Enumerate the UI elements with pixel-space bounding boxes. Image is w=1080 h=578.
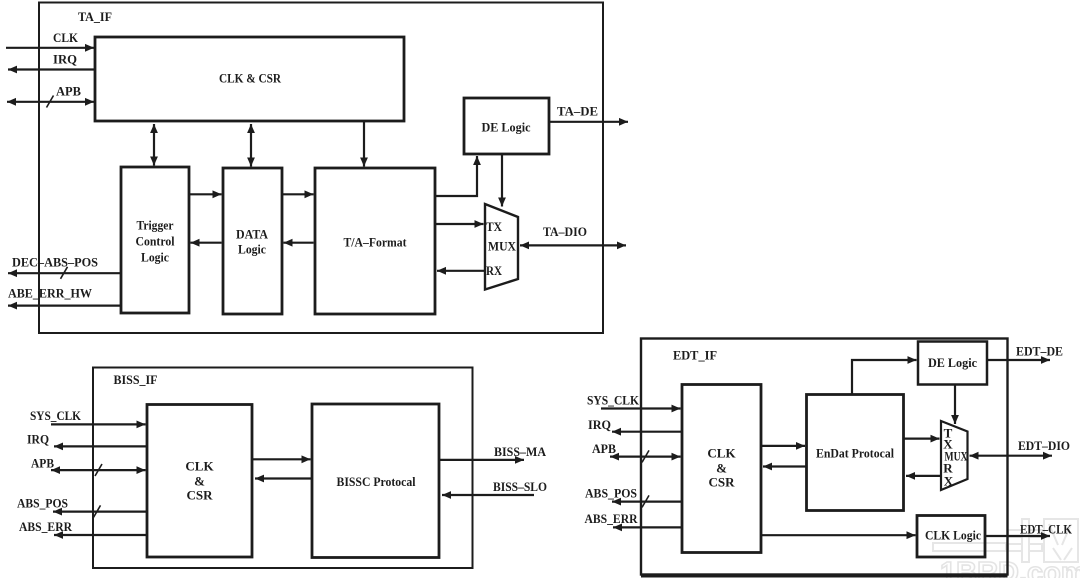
label DATA	[236, 226, 269, 241]
label MUX(EDT)	[945, 448, 968, 463]
label EDT-DE	[1016, 343, 1063, 358]
wire EnDat to CSR	[763, 465, 806, 467]
svg-text:EDT–CLK: EDT–CLK	[1020, 521, 1073, 536]
label IRQ	[53, 51, 77, 66]
wire APB bidir	[7, 101, 94, 103]
bus-width slash APB (TA)	[47, 96, 54, 108]
wire CSR-T/A vert	[363, 122, 365, 167]
wire IRQ out	[8, 68, 95, 70]
svg-text:X: X	[944, 473, 954, 488]
svg-text:BISS–SLO: BISS–SLO	[493, 479, 547, 494]
wire ABS_POS (EDT)	[612, 501, 682, 503]
svg-text:EDT–DIO: EDT–DIO	[1018, 438, 1070, 453]
wire CSR to BISSC	[253, 458, 311, 460]
label BISSC Protocal	[337, 474, 416, 489]
block DE Logic (TA)	[464, 98, 549, 154]
label T(mux)	[944, 425, 953, 440]
svg-text:ABS_ERR: ABS_ERR	[585, 511, 639, 526]
wire DATA to Trigger	[191, 242, 222, 244]
wire MUX to EnDat	[906, 475, 941, 477]
label CLK(BISS)	[185, 458, 214, 473]
label Logic	[141, 249, 169, 264]
svg-text:SYS_CLK: SYS_CLK	[587, 392, 640, 407]
label ABS_POS (EDT)	[585, 485, 637, 500]
label DEC-ABS-POS	[12, 254, 98, 269]
wire ABS_ERR (BISS)	[54, 534, 147, 536]
svg-text:CLK: CLK	[707, 445, 736, 460]
label X2(mux)	[944, 473, 954, 488]
svg-text:T/A–Format: T/A–Format	[344, 234, 408, 249]
mux TX/RX (EDT)	[941, 421, 968, 490]
label ABS_ERR (BISS)	[19, 519, 73, 534]
label ABE_ERR_HW	[8, 285, 92, 300]
label ABS_ERR (EDT)	[585, 511, 639, 526]
svg-text:CLK: CLK	[53, 30, 79, 45]
wire CLK in	[6, 47, 94, 49]
wire SYS_CLK (BISS)	[51, 423, 146, 425]
wire BISSC to CSR	[255, 477, 311, 479]
wire APB (EDT)	[610, 456, 681, 458]
label &(BISS)	[194, 473, 205, 488]
block CLK & CSR (BISS)	[147, 405, 252, 558]
svg-text:APB: APB	[31, 455, 54, 470]
label SYS_CLK (EDT)	[587, 392, 640, 407]
wire EDT-DIO bidir	[970, 455, 1053, 457]
svg-text:TX: TX	[486, 219, 503, 234]
bus-width slash APB (BISS)	[95, 464, 102, 476]
block DE Logic (EDT)	[918, 342, 987, 385]
label Control	[136, 233, 175, 248]
wire BISS-SLO in	[442, 494, 534, 496]
mux TX/RX (TA)	[485, 204, 518, 290]
label &(EDT)	[716, 460, 727, 475]
svg-text:Control: Control	[136, 233, 175, 248]
wire ABS_POS (BISS)	[53, 511, 147, 513]
wire T/A to DE Logic	[435, 156, 477, 196]
bus-width slash DEC-ABS-POS	[61, 267, 68, 279]
label Logic(DATA)	[238, 241, 266, 256]
wire IRQ (BISS)	[54, 445, 147, 447]
label BISS_IF	[114, 372, 158, 387]
wire EDT-CLK out	[986, 535, 1050, 537]
wire DEC-ABS-POS out	[8, 272, 121, 274]
label CLK(EDT)	[707, 445, 736, 460]
wire EnDat to MUX	[904, 438, 940, 440]
svg-text:BISS_IF: BISS_IF	[114, 372, 158, 387]
label SYS_CLK (BISS)	[30, 408, 82, 423]
svg-text:MUX: MUX	[488, 239, 517, 254]
svg-text:ABS_ERR: ABS_ERR	[19, 519, 73, 534]
svg-text:DE Logic: DE Logic	[928, 355, 977, 370]
block TA_IF outer	[39, 3, 603, 334]
wire ABE_ERR_HW out	[8, 305, 121, 307]
label EDT-DIO	[1018, 438, 1070, 453]
wire CSR to EnDat	[762, 445, 805, 447]
wire DE Logic to MUX	[501, 155, 503, 207]
wire BISS-MA out	[440, 459, 524, 461]
wire IRQ (EDT)	[612, 431, 682, 433]
svg-text:&: &	[716, 460, 727, 475]
wire CSR-Trigger vert	[153, 124, 155, 166]
svg-text:CSR: CSR	[186, 487, 213, 502]
block EDT_IF outer	[641, 339, 1008, 575]
svg-text:IRQ: IRQ	[27, 431, 49, 446]
svg-text:SYS_CLK: SYS_CLK	[30, 408, 82, 423]
svg-text:APB: APB	[56, 83, 81, 98]
wire CSR-DATA vert	[250, 124, 252, 167]
label TA-DE	[557, 104, 598, 119]
svg-text:TA–DIO: TA–DIO	[543, 224, 587, 239]
label MUX	[488, 239, 517, 254]
label CLK	[53, 30, 79, 45]
label EDT_IF	[673, 347, 717, 362]
svg-text:ABS_POS: ABS_POS	[17, 495, 68, 510]
label TA-DIO	[543, 224, 587, 239]
svg-text:EDT–DE: EDT–DE	[1016, 343, 1063, 358]
wire CSR to CLK Logic	[762, 534, 916, 536]
svg-text:Logic: Logic	[238, 241, 266, 256]
bus-width slash ABS_POS (BISS)	[94, 505, 101, 517]
EDT_IF outer bottom thick edge	[641, 574, 1008, 578]
bus-width slash APB (EDT)	[642, 450, 649, 462]
wire ABS_ERR (EDT)	[613, 526, 682, 528]
wire Trigger to DATA	[190, 193, 222, 195]
label Trigger	[137, 217, 174, 232]
svg-text:BISSC Protocal: BISSC Protocal	[337, 474, 416, 489]
block T/A-Format	[315, 168, 435, 314]
label APB (EDT)	[592, 441, 616, 456]
label BISS-SLO	[493, 479, 547, 494]
watermark 1BRD.com (faint)	[940, 557, 1080, 578]
wire T/A to TX	[436, 223, 484, 225]
wire TA-DE out	[550, 121, 628, 123]
svg-text:RX: RX	[486, 263, 503, 278]
block BISSC Protocal	[312, 404, 439, 558]
svg-text:IRQ: IRQ	[588, 417, 611, 432]
svg-text:EDT_IF: EDT_IF	[673, 347, 717, 362]
wire EDT-DE out	[988, 359, 1050, 361]
block CLK Logic	[917, 516, 985, 558]
label APB (BISS)	[31, 455, 54, 470]
svg-text:IRQ: IRQ	[53, 51, 77, 66]
label DE Logic (EDT)	[928, 355, 977, 370]
svg-text:APB: APB	[592, 441, 616, 456]
bus-width slash ABS_POS (EDT)	[642, 495, 649, 507]
svg-text:TA_IF: TA_IF	[78, 9, 112, 24]
svg-text:Logic: Logic	[141, 249, 169, 264]
label BISS-MA	[494, 444, 547, 459]
label CSR(BISS)	[186, 487, 213, 502]
svg-text:DATA: DATA	[236, 226, 269, 241]
label DE Logic	[482, 119, 531, 134]
label ABS_POS (BISS)	[17, 495, 68, 510]
label R(mux)	[943, 460, 953, 475]
block DATA Logic	[223, 168, 282, 314]
label CLK & CSR	[219, 70, 282, 85]
wire EnDat to DE Logic	[852, 360, 917, 394]
svg-text:BISS–MA: BISS–MA	[494, 444, 547, 459]
block Trigger Control Logic	[121, 167, 189, 313]
block CLK & CSR (EDT)	[682, 385, 761, 553]
label T/A-Format	[344, 234, 408, 249]
label EDT-CLK	[1020, 521, 1073, 536]
label CLK Logic	[925, 527, 981, 542]
wire APB (BISS)	[51, 469, 146, 471]
label CSR(EDT)	[708, 474, 735, 489]
svg-text:CLK Logic: CLK Logic	[925, 527, 981, 542]
watermark 1niu logo (faint)	[933, 519, 1078, 562]
wire DATA to T/A	[283, 193, 314, 195]
label IRQ (EDT)	[588, 417, 611, 432]
block CLK & CSR (TA)	[95, 37, 404, 121]
label TA_IF	[78, 9, 112, 24]
wire T/A to DATA	[284, 242, 314, 244]
svg-text:Trigger: Trigger	[137, 217, 174, 232]
svg-text:ABS_POS: ABS_POS	[585, 485, 637, 500]
svg-text:&: &	[194, 473, 205, 488]
wire TA-DIO bidir	[520, 244, 626, 246]
wire SYS_CLK (EDT)	[601, 407, 681, 409]
svg-text:ABE_ERR_HW: ABE_ERR_HW	[8, 285, 92, 300]
svg-text:DEC–ABS–POS: DEC–ABS–POS	[12, 254, 98, 269]
block BISS_IF outer	[93, 368, 473, 569]
svg-text:EnDat Protocal: EnDat Protocal	[816, 445, 894, 460]
label X(mux)	[943, 436, 953, 451]
wire RX to T/A	[437, 270, 485, 272]
label EnDat Protocal	[816, 445, 894, 460]
label RX	[486, 263, 503, 278]
wire DE Logic to MUX (EDT)	[954, 386, 956, 425]
block EnDat Protocal	[807, 395, 904, 511]
svg-text:CLK: CLK	[185, 458, 214, 473]
svg-text:TA–DE: TA–DE	[557, 104, 598, 119]
label TX	[486, 219, 503, 234]
svg-text:DE Logic: DE Logic	[482, 119, 531, 134]
svg-text:CLK & CSR: CLK & CSR	[219, 70, 282, 85]
label IRQ (BISS)	[27, 431, 49, 446]
label APB	[56, 83, 81, 98]
svg-text:CSR: CSR	[708, 474, 735, 489]
